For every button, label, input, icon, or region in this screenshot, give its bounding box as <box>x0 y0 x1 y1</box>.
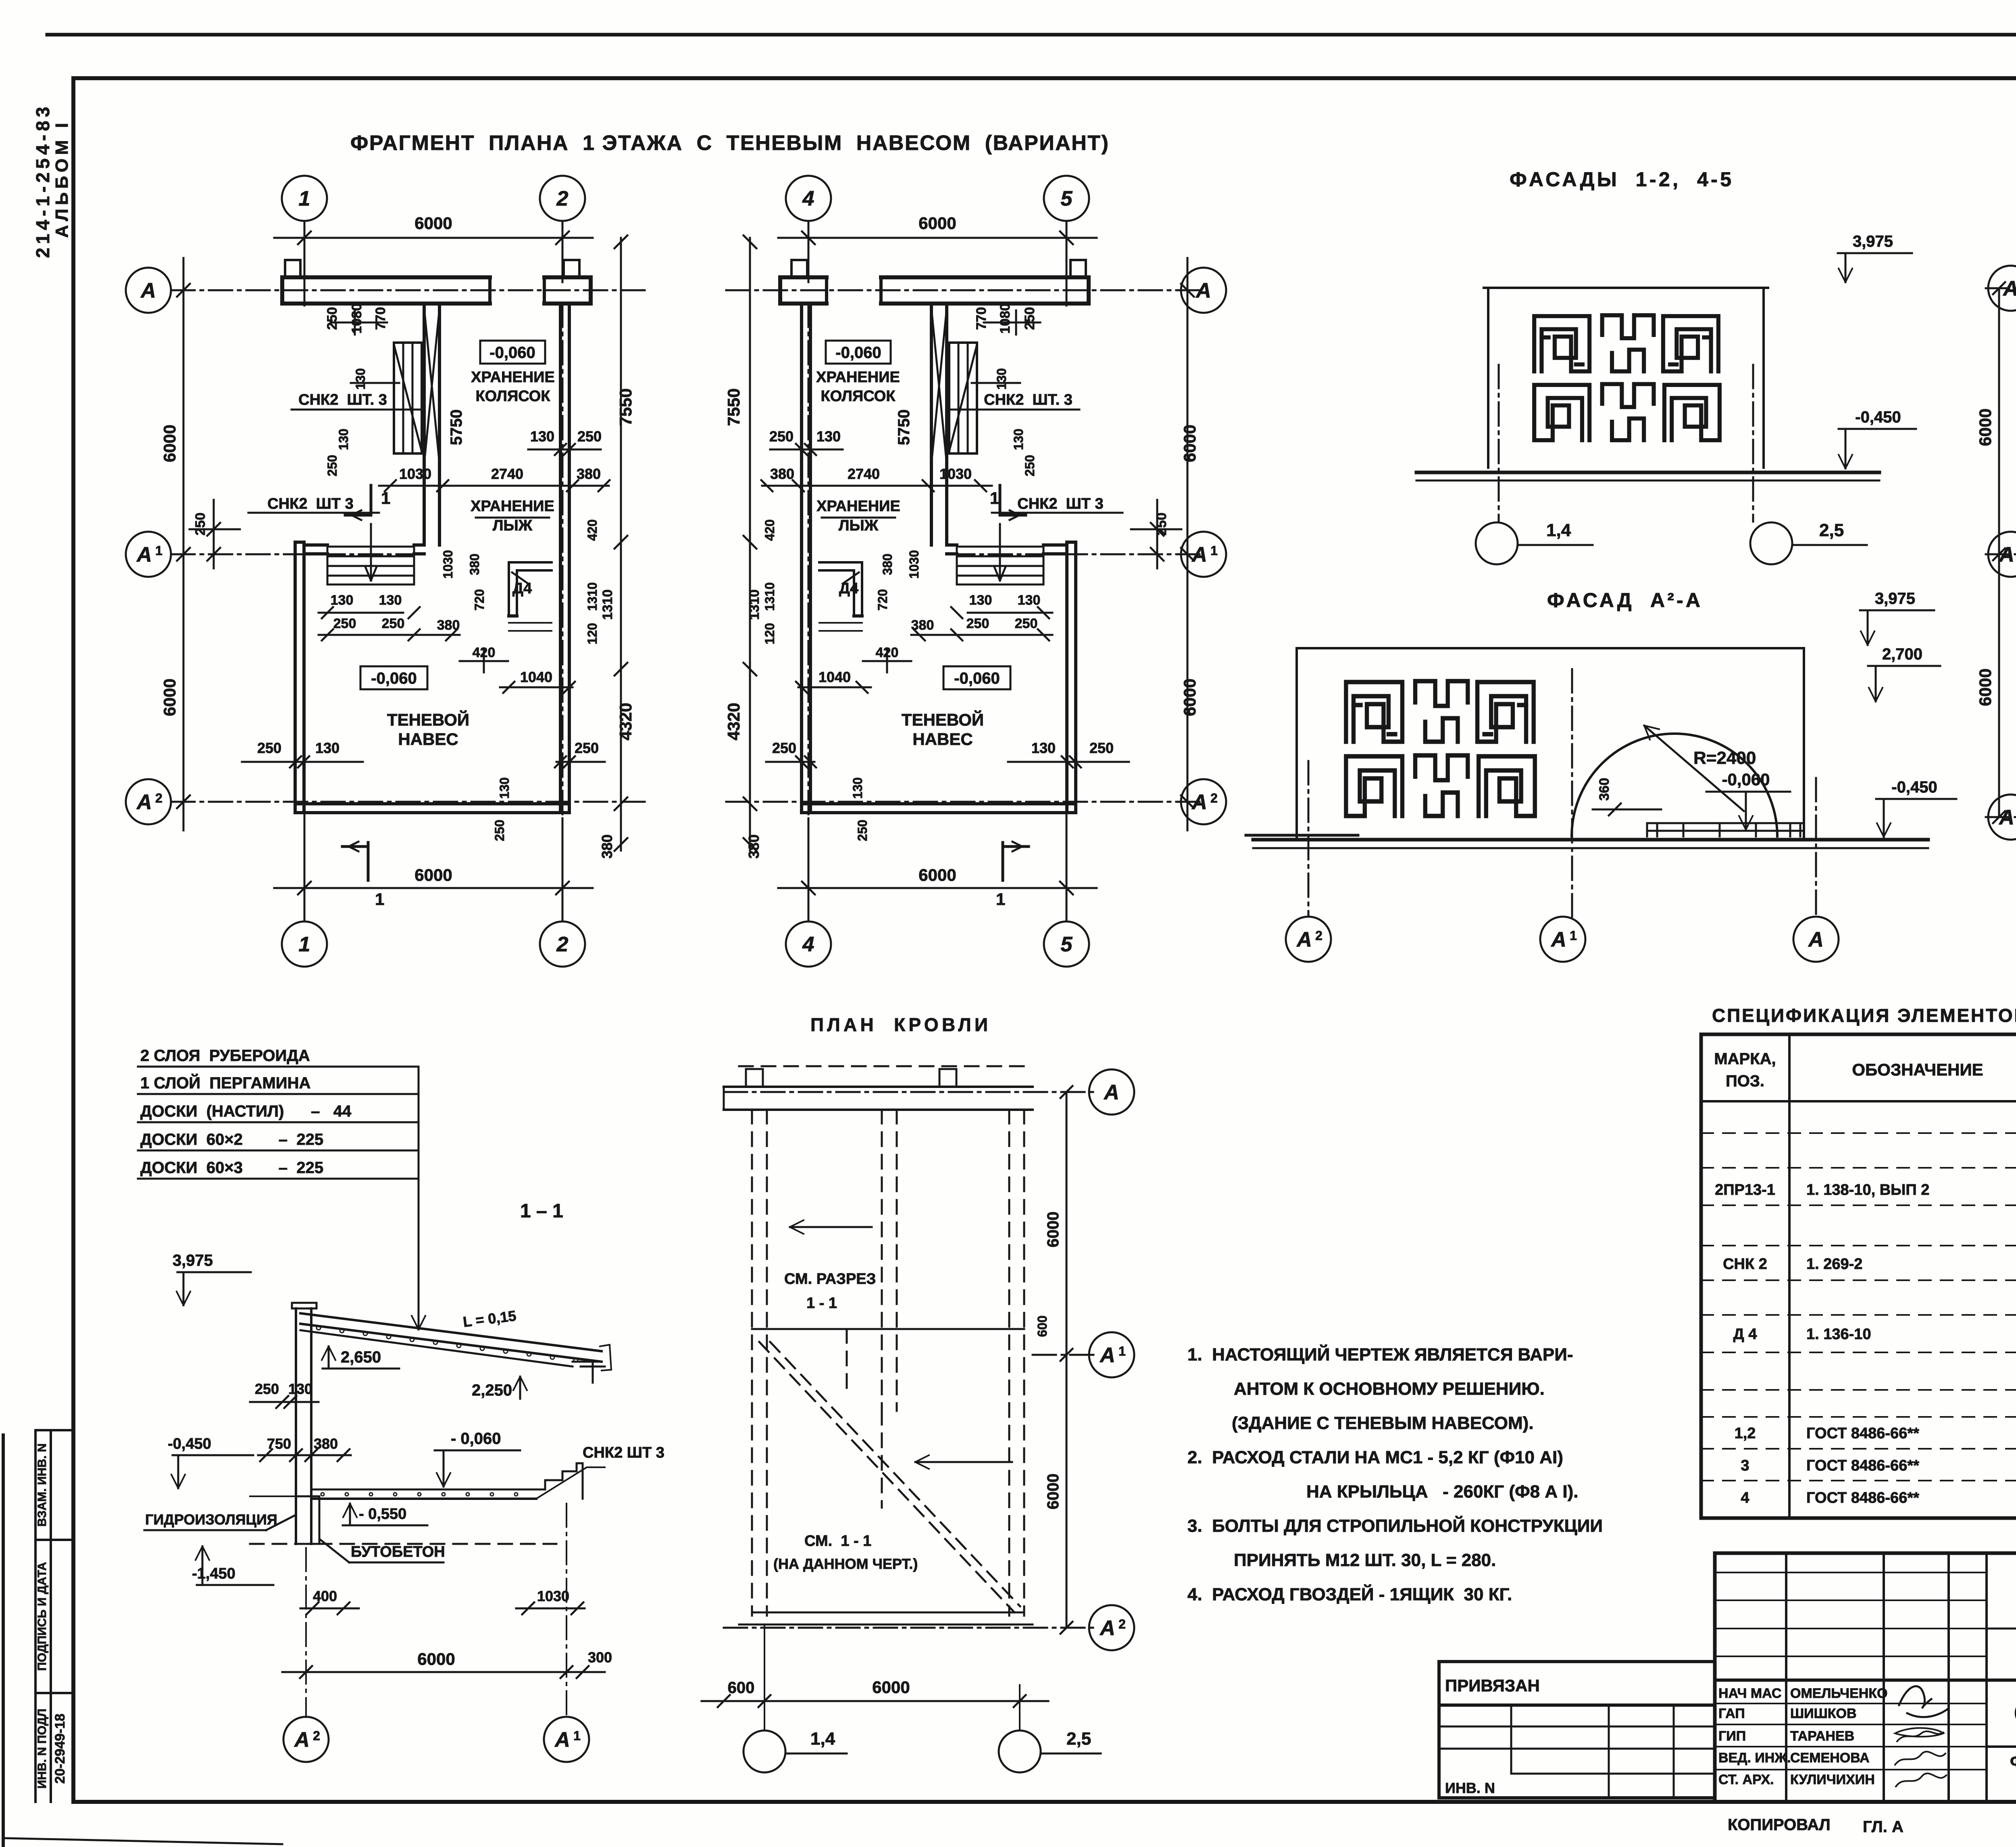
svg-text:250: 250 <box>325 455 339 476</box>
svg-text:600: 600 <box>728 1679 755 1697</box>
svg-text:ОБОЗНАЧЕНИЕ: ОБОЗНАЧЕНИЕ <box>1852 1060 1983 1079</box>
svg-text:ФАСАД А²-А: ФАСАД А²-А <box>1547 589 1700 612</box>
svg-text:5: 5 <box>1061 933 1073 956</box>
svg-text:770: 770 <box>373 307 388 330</box>
svg-text:250: 250 <box>577 428 602 445</box>
svg-text:380: 380 <box>577 466 601 482</box>
svg-text:2,5: 2,5 <box>1066 1729 1091 1749</box>
svg-text:2: 2 <box>1315 928 1322 943</box>
svg-text:250: 250 <box>855 820 870 841</box>
svg-text:6000: 6000 <box>918 865 956 884</box>
svg-text:1: 1 <box>1210 543 1218 558</box>
svg-text:ХРАНЕНИЕ: ХРАНЕНИЕ <box>471 498 554 515</box>
svg-text:БУТОБЕТОН: БУТОБЕТОН <box>351 1543 445 1560</box>
svg-text:ИНВ. N: ИНВ. N <box>1445 1780 1495 1796</box>
svg-text:6000: 6000 <box>918 214 956 233</box>
svg-text:6000: 6000 <box>160 424 179 462</box>
svg-text:1,4: 1,4 <box>1546 520 1571 540</box>
svg-text:1: 1 <box>996 890 1005 909</box>
svg-text:250: 250 <box>255 1381 279 1397</box>
svg-text:ФРАГМЕНТ ПЛАНА: ФРАГМЕНТ ПЛАНА <box>2010 1752 2016 1771</box>
svg-text:1,4: 1,4 <box>810 1729 835 1749</box>
svg-text:1030: 1030 <box>399 466 431 482</box>
svg-text:1310: 1310 <box>600 589 615 620</box>
svg-text:ФАСАДЫ 1-2, 4-5: ФАСАДЫ 1-2, 4-5 <box>1510 168 1731 191</box>
svg-text:А: А <box>2002 277 2016 300</box>
svg-text:-0,450: -0,450 <box>168 1435 211 1452</box>
svg-text:2,650: 2,650 <box>341 1348 381 1366</box>
svg-text:130: 130 <box>336 428 351 450</box>
svg-text:1080: 1080 <box>998 303 1013 334</box>
svg-text:2: 2 <box>556 933 569 956</box>
svg-text:ЛЫЖ: ЛЫЖ <box>839 517 879 534</box>
svg-text:380: 380 <box>770 466 794 482</box>
svg-text:АНТОМ К ОСНОВНОМУ РЕШЕНИЮ.: АНТОМ К ОСНОВНОМУ РЕШЕНИЮ. <box>1234 1379 1545 1399</box>
svg-text:250: 250 <box>1015 616 1038 631</box>
svg-text:1040: 1040 <box>818 669 851 685</box>
svg-text:-0,060: -0,060 <box>1722 770 1770 789</box>
svg-text:СНК2 ШТ. 3: СНК2 ШТ. 3 <box>298 391 387 408</box>
svg-text:СНК 2: СНК 2 <box>1723 1256 1767 1273</box>
svg-text:2,5: 2,5 <box>1819 520 1844 540</box>
svg-text:ИНВ. N ПОДЛ: ИНВ. N ПОДЛ <box>35 1709 49 1789</box>
svg-text:-0,060: -0,060 <box>954 670 1000 687</box>
svg-text:1. НАСТОЯЩИЙ ЧЕРТЕЖ ЯВЛЯЕТСЯ: 1. НАСТОЯЩИЙ ЧЕРТЕЖ ЯВЛЯЕТСЯ ВАРИ- <box>1187 1344 1573 1364</box>
svg-text:ГОСТ 8486-66**: ГОСТ 8486-66** <box>1806 1457 1919 1474</box>
svg-text:СТ. АРХ.: СТ. АРХ. <box>1718 1772 1774 1787</box>
svg-text:6000: 6000 <box>417 1649 455 1668</box>
svg-text:3,975: 3,975 <box>1875 590 1915 607</box>
svg-text:1040: 1040 <box>520 669 552 685</box>
svg-text:2: 2 <box>313 1728 320 1743</box>
svg-text:380: 380 <box>599 834 615 859</box>
svg-text:1: 1 <box>299 933 310 956</box>
svg-text:МАРКА,: МАРКА, <box>1714 1050 1776 1068</box>
svg-text:130: 130 <box>331 593 354 608</box>
svg-text:А: А <box>1296 928 1312 951</box>
svg-text:А: А <box>136 790 152 814</box>
svg-text:5: 5 <box>1061 187 1073 210</box>
svg-text:770: 770 <box>974 307 989 330</box>
svg-text:СНК2 ШТ 3: СНК2 ШТ 3 <box>583 1444 664 1461</box>
svg-text:6000: 6000 <box>1976 668 1995 706</box>
svg-text:250: 250 <box>1089 740 1114 756</box>
svg-text:420: 420 <box>473 645 496 660</box>
svg-text:1: 1 <box>1118 1344 1126 1358</box>
svg-text:НА КРЫЛЬЦА - 260КГ (Ф8 А I).: НА КРЫЛЬЦА - 260КГ (Ф8 А I). <box>1306 1482 1578 1502</box>
svg-text:250: 250 <box>1023 455 1037 476</box>
svg-text:1030: 1030 <box>939 466 972 482</box>
svg-text:-0,450: -0,450 <box>1855 408 1901 426</box>
svg-text:СНК2 ШТ 3: СНК2 ШТ 3 <box>267 495 353 512</box>
svg-text:720: 720 <box>472 589 487 610</box>
svg-text:250: 250 <box>772 740 796 756</box>
svg-text:КОЛЯСОК: КОЛЯСОК <box>821 388 896 405</box>
svg-text:ХРАНЕНИЕ: ХРАНЕНИЕ <box>816 498 900 515</box>
svg-text:2: 2 <box>1210 791 1218 805</box>
svg-text:ПОДПИСЬ И ДАТА: ПОДПИСЬ И ДАТА <box>35 1562 49 1671</box>
svg-text:Д4: Д4 <box>839 580 858 597</box>
svg-text:380: 380 <box>437 618 460 633</box>
svg-text:СМ. РАЗРЕЗ: СМ. РАЗРЕЗ <box>784 1271 876 1287</box>
svg-text:(ЗДАНИЕ С ТЕНЕВЫМ НАВЕСОМ).: (ЗДАНИЕ С ТЕНЕВЫМ НАВЕСОМ). <box>1232 1413 1534 1433</box>
svg-text:380: 380 <box>746 834 762 859</box>
svg-text:6000: 6000 <box>414 214 452 233</box>
svg-text:4: 4 <box>802 187 814 210</box>
svg-text:-0,060: -0,060 <box>489 344 535 362</box>
svg-text:- 0,060: - 0,060 <box>451 1430 501 1448</box>
svg-text:1: 1 <box>573 1728 581 1743</box>
svg-text:1: 1 <box>299 187 310 210</box>
svg-text:1310: 1310 <box>585 582 600 611</box>
svg-text:1310: 1310 <box>762 582 777 611</box>
svg-text:-0,450: -0,450 <box>1891 778 1937 796</box>
svg-text:420: 420 <box>876 645 899 660</box>
svg-text:ДОСКИ 60×2 – 225: ДОСКИ 60×2 – 225 <box>140 1131 323 1148</box>
svg-text:380: 380 <box>880 553 895 575</box>
svg-text:4: 4 <box>802 933 814 956</box>
svg-text:1. 136-10: 1. 136-10 <box>1806 1326 1871 1343</box>
svg-text:НАВЕС: НАВЕС <box>398 730 458 749</box>
svg-text:1080: 1080 <box>349 303 364 334</box>
svg-text:3,975: 3,975 <box>1853 233 1893 250</box>
svg-text:130: 130 <box>1031 740 1056 756</box>
svg-text:2,700: 2,700 <box>1882 645 1922 663</box>
svg-text:250: 250 <box>333 616 356 631</box>
svg-text:ПЛАН КРОВЛИ: ПЛАН КРОВЛИ <box>810 1014 988 1035</box>
svg-text:120: 120 <box>585 623 600 644</box>
svg-text:ТЕНЕВОЙ: ТЕНЕВОЙ <box>902 710 984 729</box>
svg-text:1 СЛОЙ ПЕРГАМИНА: 1 СЛОЙ ПЕРГАМИНА <box>140 1073 310 1092</box>
svg-text:ВЕД. ИНЖ.: ВЕД. ИНЖ. <box>1718 1750 1791 1766</box>
svg-text:1: 1 <box>155 543 162 558</box>
svg-text:130: 130 <box>530 428 554 445</box>
svg-text:2,250: 2,250 <box>472 1381 512 1399</box>
svg-text:ДОСКИ (НАСТИЛ) – 44: ДОСКИ (НАСТИЛ) – 44 <box>140 1102 352 1120</box>
svg-text:214-1-254-83: 214-1-254-83 <box>32 107 53 258</box>
svg-text:1. 138-10, ВЫП 2: 1. 138-10, ВЫП 2 <box>1806 1181 1929 1198</box>
svg-text:ДОСКИ 60×3 – 225: ДОСКИ 60×3 – 225 <box>140 1159 323 1177</box>
svg-text:А: А <box>1550 928 1566 951</box>
svg-text:ШИШКОВ: ШИШКОВ <box>1790 1706 1857 1721</box>
svg-text:КОПИРОВАЛ: КОПИРОВАЛ <box>1728 1816 1831 1834</box>
svg-text:-0,060: -0,060 <box>835 344 881 362</box>
svg-text:4. РАСХОД ГВОЗДЕЙ - 1ЯЩИК 30: 4. РАСХОД ГВОЗДЕЙ - 1ЯЩИК 30 КГ. <box>1187 1584 1512 1604</box>
svg-text:СНК2 ШТ. 3: СНК2 ШТ. 3 <box>984 391 1073 408</box>
svg-text:4: 4 <box>1741 1489 1749 1506</box>
svg-text:250: 250 <box>769 428 793 445</box>
svg-text:ГЛ. А: ГЛ. А <box>1863 1818 1904 1836</box>
svg-text:-1,450: -1,450 <box>192 1565 235 1582</box>
svg-text:6000: 6000 <box>872 1678 910 1697</box>
svg-text:НАЧ МАС: НАЧ МАС <box>1718 1686 1781 1701</box>
svg-text:6000: 6000 <box>160 678 179 716</box>
svg-text:А: А <box>140 279 156 302</box>
svg-text:5750: 5750 <box>448 410 465 445</box>
svg-text:Д4: Д4 <box>512 580 532 597</box>
svg-text:6000: 6000 <box>1180 424 1199 462</box>
svg-text:R=2400: R=2400 <box>1693 748 1756 768</box>
svg-text:1030: 1030 <box>907 550 921 578</box>
svg-text:ГАП: ГАП <box>1718 1706 1745 1721</box>
svg-text:6000: 6000 <box>1044 1474 1062 1510</box>
svg-text:130: 130 <box>969 593 992 608</box>
svg-text:ГОСТ 8486-66**: ГОСТ 8486-66** <box>1806 1425 1919 1442</box>
svg-text:-0,060: -0,060 <box>371 670 417 687</box>
svg-text:130: 130 <box>288 1381 312 1397</box>
svg-text:250: 250 <box>257 740 281 756</box>
svg-text:А: А <box>1191 543 1207 566</box>
svg-text:4320: 4320 <box>616 703 635 740</box>
svg-text:ГИП: ГИП <box>1718 1728 1746 1744</box>
svg-text:130: 130 <box>379 593 402 608</box>
svg-text:130: 130 <box>353 368 368 389</box>
svg-text:А: А <box>1998 806 2014 829</box>
svg-text:ТЕНЕВОЙ: ТЕНЕВОЙ <box>387 710 469 729</box>
svg-text:СМ. 1 - 1: СМ. 1 - 1 <box>804 1533 871 1550</box>
svg-text:А: А <box>1195 279 1211 302</box>
svg-text:1. 269-2: 1. 269-2 <box>1806 1256 1862 1273</box>
svg-text:130: 130 <box>497 777 512 799</box>
svg-text:ГОСТ 8486-66**: ГОСТ 8486-66** <box>1806 1489 1919 1506</box>
svg-text:1: 1 <box>375 890 384 909</box>
svg-text:1310: 1310 <box>747 589 762 620</box>
svg-text:250: 250 <box>1022 307 1037 330</box>
svg-text:СЕМЕНОВА: СЕМЕНОВА <box>1790 1750 1870 1766</box>
svg-text:2: 2 <box>1118 1617 1126 1631</box>
svg-text:720: 720 <box>875 589 890 610</box>
svg-text:130: 130 <box>994 368 1009 389</box>
svg-text:2740: 2740 <box>491 466 523 482</box>
svg-text:120: 120 <box>762 623 777 644</box>
svg-text:А: А <box>294 1728 310 1751</box>
svg-text:130: 130 <box>1018 593 1041 608</box>
svg-text:А: А <box>1808 928 1824 951</box>
svg-text:ВЗАМ. ИНВ. N: ВЗАМ. ИНВ. N <box>35 1443 49 1527</box>
svg-text:6000: 6000 <box>1976 408 1995 446</box>
svg-text:5750: 5750 <box>895 410 913 445</box>
svg-text:2: 2 <box>556 187 569 210</box>
svg-text:250: 250 <box>575 740 599 756</box>
svg-text:А: А <box>1099 1344 1115 1367</box>
svg-text:7550: 7550 <box>724 388 743 426</box>
svg-text:130: 130 <box>816 428 841 445</box>
svg-text:130: 130 <box>1011 428 1026 450</box>
svg-text:420: 420 <box>585 519 600 541</box>
svg-text:1: 1 <box>990 489 999 508</box>
svg-text:АЛЬБОМ I: АЛЬБОМ I <box>52 123 72 238</box>
svg-text:А: А <box>1998 543 2014 566</box>
svg-text:250: 250 <box>193 513 208 536</box>
svg-text:ОМЕЛЬЧЕНКО: ОМЕЛЬЧЕНКО <box>1790 1686 1888 1701</box>
svg-text:ЛЫЖ: ЛЫЖ <box>493 517 533 534</box>
svg-text:2ПР13-1: 2ПР13-1 <box>1715 1181 1775 1198</box>
svg-text:2740: 2740 <box>848 466 880 482</box>
svg-text:ТАРАНЕВ: ТАРАНЕВ <box>1790 1728 1854 1744</box>
svg-text:КУЛИЧИХИН: КУЛИЧИХИН <box>1790 1772 1875 1787</box>
svg-text:20-2949-18: 20-2949-18 <box>52 1714 68 1784</box>
svg-text:2. РАСХОД СТАЛИ НА МС1 - 5,2: 2. РАСХОД СТАЛИ НА МС1 - 5,2 КГ (Ф10 АI) <box>1187 1448 1563 1467</box>
svg-text:6000: 6000 <box>414 865 452 884</box>
svg-text:2 СЛОЯ РУБЕРОИДА: 2 СЛОЯ РУБЕРОИДА <box>140 1047 310 1065</box>
svg-text:- 0,550: - 0,550 <box>359 1506 406 1523</box>
svg-text:Д 4: Д 4 <box>1733 1326 1757 1343</box>
svg-text:А: А <box>136 543 152 566</box>
svg-text:А: А <box>1103 1081 1119 1104</box>
svg-text:1: 1 <box>1570 928 1577 943</box>
svg-text:2: 2 <box>155 791 162 805</box>
svg-text:1030: 1030 <box>537 1588 569 1604</box>
svg-text:1 - 1: 1 - 1 <box>806 1295 837 1312</box>
svg-text:380: 380 <box>911 618 934 633</box>
svg-text:(НА ДАННОМ ЧЕРТ.): (НА ДАННОМ ЧЕРТ.) <box>773 1556 918 1572</box>
svg-text:ХРАНЕНИЕ: ХРАНЕНИЕ <box>816 369 900 386</box>
svg-text:НАВЕС: НАВЕС <box>912 730 973 749</box>
svg-text:А: А <box>1191 790 1207 814</box>
svg-text:250: 250 <box>1154 513 1169 536</box>
svg-text:1 – 1: 1 – 1 <box>520 1200 563 1222</box>
svg-text:А: А <box>1099 1616 1115 1640</box>
svg-text:7550: 7550 <box>616 388 635 426</box>
svg-text:300: 300 <box>588 1649 612 1666</box>
svg-text:250: 250 <box>492 820 507 841</box>
svg-text:ФРАГМЕНТ ПЛАНА 1 ЭТАЖА С Т: ФРАГМЕНТ ПЛАНА 1 ЭТАЖА С ТЕНЕВЫМ НАВЕСОМ… <box>350 131 1108 155</box>
svg-text:3: 3 <box>1741 1457 1749 1474</box>
svg-text:СНК2 ШТ 3: СНК2 ШТ 3 <box>1017 495 1103 512</box>
svg-text:А: А <box>554 1728 570 1751</box>
svg-text:ПРИНЯТЬ М12 ШТ. 30, L = 280.: ПРИНЯТЬ М12 ШТ. 30, L = 280. <box>1234 1550 1496 1570</box>
svg-text:6000: 6000 <box>1180 678 1199 716</box>
svg-text:4320: 4320 <box>724 703 743 740</box>
svg-text:ГИДРОИЗОЛЯЦИЯ: ГИДРОИЗОЛЯЦИЯ <box>145 1511 277 1528</box>
svg-text:(СО СТЕНАМИ ИЗ КИРПИЧА ): (СО СТЕНАМИ ИЗ КИРПИЧА ) <box>2014 1703 2016 1721</box>
svg-text:380: 380 <box>467 553 482 575</box>
svg-text:ПОЗ.: ПОЗ. <box>1726 1072 1764 1090</box>
svg-text:130: 130 <box>315 740 339 756</box>
svg-text:250: 250 <box>382 616 405 631</box>
svg-text:130: 130 <box>850 777 865 799</box>
svg-text:3. БОЛТЫ ДЛЯ СТРОПИЛЬНОЙ КОНС: 3. БОЛТЫ ДЛЯ СТРОПИЛЬНОЙ КОНСТРУКЦИИ <box>1187 1515 1603 1536</box>
svg-text:ХРАНЕНИЕ: ХРАНЕНИЕ <box>471 369 555 386</box>
svg-text:ПРИВЯЗАН: ПРИВЯЗАН <box>1445 1676 1540 1695</box>
svg-text:360: 360 <box>1597 778 1612 801</box>
svg-text:3,975: 3,975 <box>173 1252 213 1269</box>
svg-text:1030: 1030 <box>441 550 455 578</box>
svg-text:400: 400 <box>313 1588 337 1604</box>
svg-text:250: 250 <box>325 307 340 330</box>
svg-text:250: 250 <box>966 616 989 631</box>
svg-text:600: 600 <box>1035 1315 1050 1337</box>
svg-text:420: 420 <box>762 519 777 541</box>
svg-text:КОЛЯСОК: КОЛЯСОК <box>475 388 550 405</box>
svg-text:1,2: 1,2 <box>1735 1425 1756 1442</box>
svg-text:6000: 6000 <box>1044 1212 1062 1248</box>
svg-text:1: 1 <box>381 489 390 508</box>
